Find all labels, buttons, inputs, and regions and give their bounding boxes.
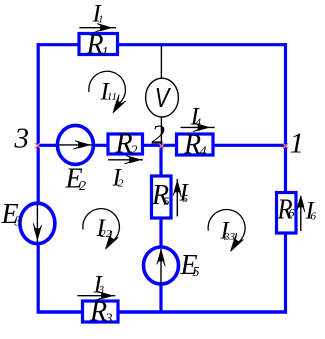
svg-text:2: 2 [118,178,124,190]
svg-text:6: 6 [289,206,295,220]
svg-text:1: 1 [290,128,305,160]
svg-text:3: 3 [14,215,22,230]
current arrow I2 [108,156,143,192]
node 2 label [152,120,166,150]
resistor R1 [79,30,118,61]
wire voltmeter branch (thin black) [160,46,162,144]
current arrow I4 [181,104,215,132]
svg-text:33: 33 [223,231,236,243]
svg-text:4: 4 [196,117,202,129]
wire left [37,43,40,313]
wire center vertical branch [159,145,162,312]
wire top [37,43,287,46]
svg-text:3: 3 [105,312,113,327]
source E5 [144,247,200,284]
loop current I33 [208,210,245,254]
svg-text:2: 2 [131,144,138,159]
resistor R6 [277,193,297,234]
loop current I11 [89,71,127,115]
node 1 junction marker [283,143,288,148]
svg-text:4: 4 [200,145,207,160]
svg-text:5: 5 [183,193,189,205]
svg-text:11: 11 [107,91,117,103]
wire bottom [37,310,287,313]
svg-text:6: 6 [311,211,317,223]
current arrow I1 [79,1,116,32]
resistor R4 [177,130,214,161]
voltmeter V [146,78,179,117]
svg-text:2: 2 [79,179,86,194]
node 3 label [14,123,30,155]
resistor R5 [151,176,171,218]
source E2 [57,125,93,194]
svg-text:1: 1 [102,45,109,60]
resistor R2 [108,129,143,160]
current arrow I5 [173,179,189,216]
node 2 junction marker [159,143,164,148]
svg-text:5: 5 [164,194,170,208]
wire middle horizontal [37,144,286,147]
current arrow I3 [77,272,115,300]
node 1 label [290,128,305,160]
svg-text:3: 3 [98,284,105,296]
loop current I22 [83,209,120,251]
svg-text:R: R [183,130,201,161]
svg-text:V: V [155,82,172,113]
resistor R3 [83,297,119,328]
svg-text:22: 22 [100,228,112,240]
source E3 [1,199,55,244]
svg-text:5: 5 [193,265,200,280]
node 3 junction marker [35,143,40,148]
svg-text:R: R [89,297,107,328]
svg-text:1: 1 [98,14,104,26]
current arrow I6 [297,196,317,231]
wire right [284,43,287,313]
svg-text:3: 3 [14,123,30,155]
